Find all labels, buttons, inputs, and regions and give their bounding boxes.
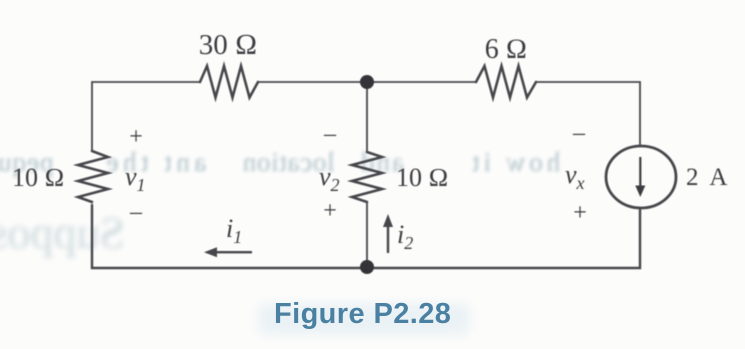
current source arrow [635,157,645,197]
svg-text:i2: i2 [397,220,413,253]
caption Figure P2.28 [274,298,451,331]
current arrow i1 [204,247,252,257]
wire top-left segment [92,82,200,151]
wire middle branch top [366,82,368,152]
ghost bleed-through text line 2 Suppose [0,206,125,259]
svg-text:–: – [129,199,143,225]
svg-text:–: – [572,120,586,146]
ghost bleed-through word D [359,147,404,178]
caption halo band [258,303,470,335]
resistor R2 10ohm middle vertical zigzag [352,152,382,202]
junction dot top [360,75,374,89]
svg-text:–: – [323,121,337,147]
svg-text:10 Ω: 10 Ω [12,163,64,192]
svg-text:2 A: 2 A [686,164,730,191]
ghost bleed-through word C [242,147,335,178]
wire top-middle segment [258,81,476,83]
resistor R 30ohm zigzag [200,66,258,98]
svg-text:6 Ω: 6 Ω [485,34,528,65]
svg-text:30 Ω: 30 Ω [199,29,258,61]
wire left-bottom segment [92,205,367,268]
svg-text:+: + [573,200,587,226]
svg-text:i1: i1 [226,214,242,247]
resistor R 10ohm left vertical zigzag [78,151,108,202]
svg-text:vx: vx [565,160,585,193]
ghost bleed-through word A [0,147,53,178]
junction dot bottom [360,260,374,274]
svg-text:v2: v2 [319,162,340,195]
current source circle [606,146,676,208]
current arrow i2 [383,214,393,253]
wire middle branch bottom [366,202,368,268]
resistor R 6ohm zigzag [476,66,536,98]
svg-text:10 Ω: 10 Ω [396,163,448,192]
ghost bleed-through word E [468,147,560,178]
svg-text:+: + [129,124,143,150]
ghost bleed-through word B [102,147,206,178]
svg-text:v1: v1 [125,162,146,195]
wire bottom-right segment [367,208,640,268]
svg-text:+: + [323,198,337,224]
wire top-right segment [536,82,640,146]
